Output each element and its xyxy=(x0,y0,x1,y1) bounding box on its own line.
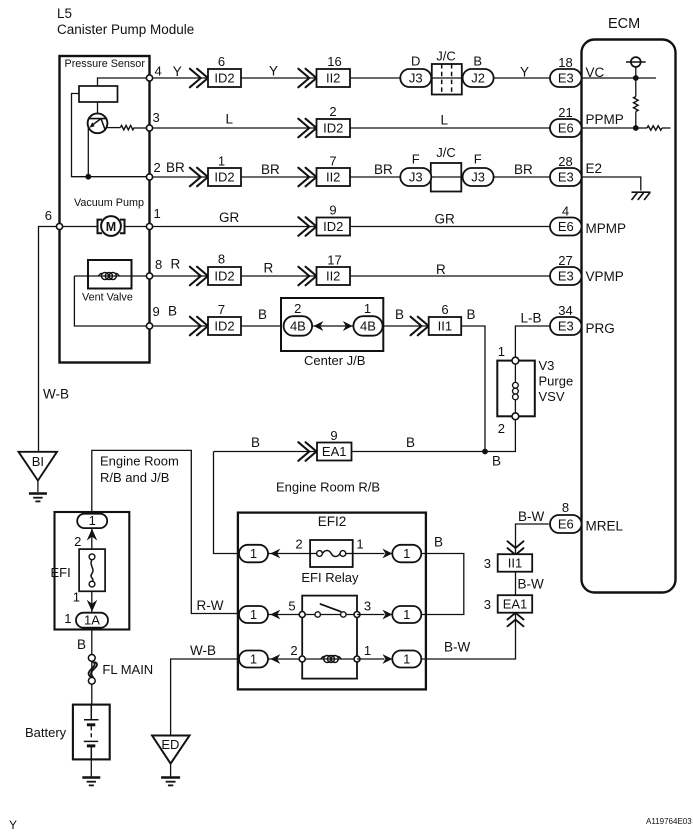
svg-text:6: 6 xyxy=(441,302,448,317)
svg-text:2: 2 xyxy=(295,537,302,552)
svg-text:F: F xyxy=(412,152,420,167)
svg-text:B: B xyxy=(251,435,260,450)
wire MREL B-W to II1 connector xyxy=(516,524,549,555)
wire II2 to J3 row1 xyxy=(350,77,400,79)
wire E3-34 to VSV pin1 L-B xyxy=(515,326,550,361)
svg-text:3: 3 xyxy=(484,597,491,612)
battery cells xyxy=(84,705,99,760)
svg-text:1: 1 xyxy=(89,513,96,528)
ground ED xyxy=(161,778,180,786)
svg-text:B: B xyxy=(467,307,476,322)
svg-text:EA1: EA1 xyxy=(322,444,347,459)
wire switch to right oval xyxy=(357,614,385,616)
vent valve coil xyxy=(99,272,120,279)
wire through relay switch xyxy=(302,614,357,616)
junction VC xyxy=(633,75,639,81)
wire EA1 to junction xyxy=(351,451,485,453)
svg-text:L5: L5 xyxy=(57,6,72,21)
svg-text:Vent Valve: Vent Valve xyxy=(82,292,133,304)
arrow up into connector 1 xyxy=(87,529,98,541)
pressure transducer circle xyxy=(88,113,108,133)
svg-text:B: B xyxy=(258,307,267,322)
svg-text:L: L xyxy=(226,112,234,127)
wire II1 to EA1 B-W xyxy=(515,571,517,596)
pin 6 terminal xyxy=(56,223,62,229)
connector II1 row6 xyxy=(429,317,462,335)
connector ID2 row3 xyxy=(208,168,241,186)
junction B node xyxy=(482,449,488,455)
svg-text:II1: II1 xyxy=(438,318,452,333)
wire VC internal xyxy=(582,77,657,79)
wire pin1 to ID2 row4 xyxy=(150,226,317,228)
wire power to VC xyxy=(635,67,637,78)
wire ID2 to II2 row1 xyxy=(241,77,317,79)
connector ID2 row5 xyxy=(208,267,241,285)
wire ID2 to 4B row6 xyxy=(241,325,284,327)
relay terminal 2 xyxy=(299,656,305,662)
ECM pin 4 E6 MPMP xyxy=(550,218,582,236)
connector arrow row5 colA xyxy=(190,267,208,286)
junction pressure sensor xyxy=(85,174,91,180)
junction PPMP xyxy=(633,125,639,131)
EFI fuse holder box xyxy=(55,512,130,630)
motor brackets xyxy=(98,220,125,234)
wire pin3 to ID2 row2 xyxy=(150,127,317,129)
svg-text:9: 9 xyxy=(153,304,160,319)
wire through J/C row3 xyxy=(428,176,465,178)
wire BI to ground xyxy=(37,481,39,492)
svg-text:II1: II1 xyxy=(508,555,522,570)
svg-text:8: 8 xyxy=(562,500,569,515)
svg-text:1: 1 xyxy=(250,607,257,622)
wire motor to pin1 xyxy=(125,226,150,228)
arrow into coil right oval xyxy=(382,654,392,664)
svg-text:II2: II2 xyxy=(326,169,340,184)
svg-text:ED: ED xyxy=(161,737,179,752)
connector II1 3 xyxy=(498,554,533,572)
VSV pin 1 terminal xyxy=(512,357,519,364)
connector arrow row3 colA xyxy=(190,168,208,187)
svg-text:E3: E3 xyxy=(558,70,574,85)
connector arrow row2 colB xyxy=(298,119,316,138)
svg-text:BI: BI xyxy=(32,454,44,469)
svg-text:VC: VC xyxy=(586,65,605,80)
wire B-W EFI2 to EA1 connector xyxy=(421,613,515,659)
fuse EFI box xyxy=(79,549,105,591)
svg-text:3: 3 xyxy=(484,556,491,571)
svg-text:1: 1 xyxy=(73,590,80,605)
svg-text:27: 27 xyxy=(558,253,572,268)
svg-text:9: 9 xyxy=(330,428,337,443)
svg-text:Pressure Sensor: Pressure Sensor xyxy=(65,58,146,70)
pin 4 terminal xyxy=(146,75,152,81)
svg-text:1: 1 xyxy=(154,206,161,221)
svg-text:Y: Y xyxy=(269,64,278,79)
svg-text:EFI2: EFI2 xyxy=(318,514,347,529)
svg-text:1A: 1A xyxy=(84,613,100,628)
svg-text:II2: II2 xyxy=(326,268,340,283)
wire II2 to E3-27 row5 xyxy=(350,275,550,277)
svg-text:1: 1 xyxy=(64,611,71,626)
VSV pin 2 terminal xyxy=(512,413,519,420)
svg-text:E6: E6 xyxy=(558,516,574,531)
svg-text:1: 1 xyxy=(498,344,505,359)
svg-text:3: 3 xyxy=(364,599,371,614)
svg-text:MPMP: MPMP xyxy=(586,221,627,236)
wire fuse lead right xyxy=(346,553,353,555)
connector J3 row3 left xyxy=(400,168,431,186)
wire J2 to E3-18 row1 xyxy=(494,77,550,79)
svg-text:4: 4 xyxy=(562,204,569,219)
wire ID2 to E6-4 row4 xyxy=(350,226,550,228)
svg-text:2: 2 xyxy=(329,104,336,119)
motor M circle xyxy=(101,216,121,236)
svg-text:F: F xyxy=(474,152,482,167)
svg-text:1: 1 xyxy=(403,651,410,666)
wire resistor 2 end xyxy=(662,127,671,129)
wire resistor to pin3 xyxy=(134,127,150,129)
svg-text:B: B xyxy=(473,54,482,69)
wire vent valve to pin9 xyxy=(74,276,149,326)
svg-text:B: B xyxy=(434,535,443,550)
arrow into switch left oval xyxy=(270,610,280,620)
svg-text:A119764E03: A119764E03 xyxy=(646,817,692,826)
relay coil xyxy=(321,656,341,663)
svg-text:Canister Pump Module: Canister Pump Module xyxy=(57,22,194,37)
arrow into fuse left oval xyxy=(270,549,280,559)
ground battery xyxy=(82,778,100,786)
ECM pin 27 E3 VPMP xyxy=(550,267,582,285)
connector II2 row3 xyxy=(317,168,351,186)
wire II2 to J3 row3 xyxy=(350,176,400,178)
svg-text:7: 7 xyxy=(329,154,336,169)
wire W-B to ED ground xyxy=(171,659,239,736)
svg-text:ID2: ID2 xyxy=(323,120,343,135)
ground triangle BI xyxy=(19,452,58,481)
connector EA1 3 xyxy=(498,595,533,613)
svg-text:1: 1 xyxy=(356,537,363,552)
svg-text:J2: J2 xyxy=(471,70,485,85)
junction block J/C row3 xyxy=(431,163,462,192)
svg-text:2: 2 xyxy=(498,421,505,436)
svg-text:B-W: B-W xyxy=(444,640,471,655)
wire transducer to resistor xyxy=(107,127,120,129)
svg-text:B: B xyxy=(395,307,404,322)
svg-text:E3: E3 xyxy=(558,169,574,184)
svg-text:8: 8 xyxy=(218,252,225,267)
svg-text:BR: BR xyxy=(514,162,533,177)
svg-text:E6: E6 xyxy=(558,219,574,234)
svg-text:18: 18 xyxy=(558,55,572,70)
svg-text:L-B: L-B xyxy=(521,311,542,326)
svg-text:ID2: ID2 xyxy=(214,169,234,184)
svg-text:BR: BR xyxy=(166,160,185,175)
svg-text:W-B: W-B xyxy=(190,643,216,658)
wire through vent valve to pin8 xyxy=(74,275,149,277)
svg-text:1: 1 xyxy=(218,154,225,169)
wire ID2 to E6-21 row2 xyxy=(350,127,550,129)
arrow into switch right oval xyxy=(382,610,392,620)
svg-text:EFI Relay: EFI Relay xyxy=(301,570,359,585)
wire ED to ground xyxy=(170,764,172,777)
relay terminal 1 xyxy=(354,656,360,662)
svg-text:GR: GR xyxy=(219,210,240,225)
svg-text:ID2: ID2 xyxy=(214,70,234,85)
svg-text:2: 2 xyxy=(294,301,301,316)
connector 1 EFI2 coil left xyxy=(239,651,268,668)
svg-text:Engine Room R/B: Engine Room R/B xyxy=(276,480,380,495)
svg-text:E2: E2 xyxy=(586,161,603,176)
transducer emitter arrowhead xyxy=(90,122,95,127)
ECM pin 8 E6 MREL xyxy=(550,515,582,533)
resistor internal horizontal xyxy=(647,126,662,130)
connector J2 row1 xyxy=(463,69,494,87)
svg-text:Y: Y xyxy=(9,818,17,832)
svg-text:B: B xyxy=(168,304,177,319)
ECM pin 34 E3 PRG xyxy=(550,317,582,335)
svg-text:Purge: Purge xyxy=(539,374,574,389)
wire through J/C row1 xyxy=(428,77,465,79)
svg-text:J/C: J/C xyxy=(436,49,456,64)
wire EFI fuse to EFI2 relay R-W xyxy=(92,450,239,613)
wire J3 to E3-28 row3 xyxy=(494,176,550,178)
wire oval to relay coil xyxy=(268,658,302,660)
svg-text:B: B xyxy=(492,454,501,469)
connector arrow row3 colB xyxy=(298,168,316,187)
svg-text:ID2: ID2 xyxy=(214,268,234,283)
EFI2 box xyxy=(238,513,426,690)
connector J3 row3 right xyxy=(463,168,494,186)
svg-text:1: 1 xyxy=(403,546,410,561)
resistor pressure sensor xyxy=(120,125,134,129)
svg-text:E3: E3 xyxy=(558,268,574,283)
svg-text:Y: Y xyxy=(520,65,529,80)
power source symbol xyxy=(626,57,646,67)
wire battery to ground xyxy=(90,759,92,777)
pin 8 terminal xyxy=(146,273,152,279)
svg-text:ID2: ID2 xyxy=(214,318,234,333)
wire pin9 to ID2 row6 xyxy=(150,325,209,327)
ECM pin 18 E3 VC xyxy=(550,69,582,87)
svg-text:Battery: Battery xyxy=(25,725,67,740)
wire pin8 to ID2 row5 xyxy=(150,275,209,277)
svg-text:34: 34 xyxy=(558,303,572,318)
connector II2 row1 xyxy=(317,69,351,87)
wire element to transducer xyxy=(97,102,99,119)
relay terminal 3 xyxy=(354,612,360,618)
connector arrow row6 colA xyxy=(190,317,208,336)
wire VC to resistor xyxy=(635,78,637,97)
connector 1 EFI2 switch right xyxy=(392,606,421,623)
connector 1 EFI2 switch left xyxy=(239,606,268,623)
svg-text:3: 3 xyxy=(153,110,160,125)
fusible link FL MAIN xyxy=(88,655,97,685)
svg-text:2: 2 xyxy=(290,643,297,658)
vent valve box xyxy=(88,260,132,289)
wire oval to relay switch xyxy=(268,614,302,616)
connector arrow row1 colB xyxy=(298,69,316,88)
arrow into 4B-1 xyxy=(343,321,353,331)
svg-text:2: 2 xyxy=(74,534,81,549)
svg-text:EA1: EA1 xyxy=(503,596,528,611)
connector II2 row5 xyxy=(317,267,351,285)
canister pump module box xyxy=(60,56,150,363)
wire 4B to II1 row6 xyxy=(383,325,429,327)
svg-text:VPMP: VPMP xyxy=(586,269,624,284)
svg-text:PPMP: PPMP xyxy=(586,112,624,127)
connector 1 EFI2 fuse left xyxy=(239,545,268,563)
svg-text:1: 1 xyxy=(364,301,371,316)
svg-text:6: 6 xyxy=(218,54,225,69)
svg-text:Center J/B: Center J/B xyxy=(304,353,365,368)
connector 4B-1 xyxy=(353,316,382,336)
wire PPMP internal xyxy=(582,127,636,129)
svg-text:B-W: B-W xyxy=(518,577,545,592)
svg-text:16: 16 xyxy=(327,54,341,69)
wire pin4 to ID2 row1 xyxy=(150,77,209,79)
svg-text:1: 1 xyxy=(364,643,371,658)
wire pin2 to ID2 row3 xyxy=(150,176,209,178)
wire resistor to PPMP xyxy=(635,112,637,129)
svg-text:Y: Y xyxy=(173,64,182,79)
connector chevron into II1 xyxy=(508,541,524,555)
wire ID2 to II2 row3 xyxy=(241,176,317,178)
connector 1 EFI2 coil right xyxy=(392,651,421,668)
connector 4B-2 xyxy=(284,316,313,336)
svg-text:8: 8 xyxy=(155,257,162,272)
fuse EFI relay box xyxy=(310,540,353,567)
pin 1 terminal xyxy=(146,223,152,229)
pin 3 terminal xyxy=(146,125,152,131)
svg-text:VSV: VSV xyxy=(539,389,565,404)
wire 1A to FL MAIN to battery xyxy=(91,629,93,705)
svg-text:V3: V3 xyxy=(539,358,555,373)
pin 2 terminal xyxy=(146,174,152,180)
svg-text:1: 1 xyxy=(250,546,257,561)
svg-text:9: 9 xyxy=(329,203,336,218)
wire through relay coil xyxy=(302,658,357,660)
svg-text:J3: J3 xyxy=(409,169,423,184)
arrow down into connector 1A xyxy=(87,600,98,612)
purge VSV coil xyxy=(513,382,519,399)
svg-text:D: D xyxy=(411,54,420,69)
wire through EFI fuse holder xyxy=(91,529,93,614)
fuse EFI relay element xyxy=(317,551,346,557)
connector arrow row1 colA xyxy=(190,69,208,88)
wire coil to right oval xyxy=(357,658,385,660)
connector arrow row5 colB xyxy=(298,267,316,286)
wire down to EFI2 fuse row xyxy=(214,452,240,554)
junction block J/C row1 xyxy=(432,64,462,95)
svg-text:28: 28 xyxy=(558,154,572,169)
svg-text:ID2: ID2 xyxy=(323,219,343,234)
ECM pin 28 E3 E2 xyxy=(550,168,582,186)
svg-text:17: 17 xyxy=(327,253,341,268)
wire transducer to junction xyxy=(87,128,89,177)
svg-text:E6: E6 xyxy=(558,120,574,135)
connector J3 row1 xyxy=(400,69,431,87)
connector arrow row6 II1 xyxy=(411,317,429,336)
svg-text:FL MAIN: FL MAIN xyxy=(102,662,153,677)
fuse EFI element xyxy=(89,554,95,587)
svg-text:R/B and J/B: R/B and J/B xyxy=(100,470,169,485)
wire pin4 to sensor element xyxy=(98,78,150,86)
svg-text:R-W: R-W xyxy=(197,598,224,613)
svg-text:R: R xyxy=(436,262,446,277)
wire junction to VSV pin2 xyxy=(485,416,515,451)
svg-text:R: R xyxy=(171,257,181,272)
svg-text:M: M xyxy=(106,220,116,234)
pressure sensor element xyxy=(79,86,118,102)
connector chevron into EA1 xyxy=(508,613,524,627)
relay body box xyxy=(302,596,357,679)
chassis ground E2 xyxy=(632,192,651,200)
connector ID2 row2 xyxy=(317,119,351,137)
svg-text:J/C: J/C xyxy=(436,145,456,160)
svg-text:B: B xyxy=(77,637,86,652)
wire fuse to right oval xyxy=(353,553,385,555)
svg-text:4B: 4B xyxy=(360,318,376,333)
svg-text:J3: J3 xyxy=(409,70,423,85)
wire ID2 to II2 row5 xyxy=(241,275,317,277)
ECM box xyxy=(582,40,676,593)
svg-text:7: 7 xyxy=(218,302,225,317)
svg-text:W-B: W-B xyxy=(43,387,69,402)
wire II1 to junction B xyxy=(461,326,485,452)
svg-text:B: B xyxy=(406,435,415,450)
resistor internal vertical xyxy=(634,97,639,112)
svg-text:PRG: PRG xyxy=(586,321,615,336)
connector 1 EFI2 fuse right xyxy=(392,545,421,563)
connector arrow row4 colB xyxy=(298,217,316,236)
svg-text:5: 5 xyxy=(288,599,295,614)
wire PPMP to resistor 2 xyxy=(636,127,647,129)
svg-text:GR: GR xyxy=(435,212,456,227)
relay terminal 5 xyxy=(299,612,305,618)
svg-text:21: 21 xyxy=(558,105,572,120)
wire VSV coil to pin2 xyxy=(514,400,516,417)
transducer chord xyxy=(89,118,106,120)
battery box xyxy=(73,705,110,760)
wire sensor to pin2 rail xyxy=(72,94,150,177)
svg-text:4B: 4B xyxy=(290,318,306,333)
svg-text:Engine Room: Engine Room xyxy=(100,454,179,469)
connector 1 EFI top xyxy=(77,513,107,528)
svg-text:2: 2 xyxy=(154,160,161,175)
purge VSV box xyxy=(497,361,535,417)
svg-text:Vacuum Pump: Vacuum Pump xyxy=(74,197,144,209)
connector 1A xyxy=(76,613,108,628)
svg-text:1: 1 xyxy=(403,607,410,622)
ground BI xyxy=(29,494,47,502)
connector ID2 row4 xyxy=(317,218,351,236)
wire pin6 W-B to BI ground xyxy=(39,227,60,452)
connector ID2 row6 xyxy=(208,317,241,335)
svg-text:6: 6 xyxy=(45,208,52,223)
wire oval to fuse EFI2 xyxy=(268,553,310,555)
relay switch contacts xyxy=(315,604,346,617)
arrow into fuse right oval xyxy=(382,549,392,559)
connector arrow EA1 xyxy=(298,442,316,461)
wire E2 internal xyxy=(582,177,641,191)
wire pin6 to motor xyxy=(60,226,98,228)
arrow into coil left oval xyxy=(270,654,280,664)
wire between 4B ovals xyxy=(312,325,354,327)
wire B loop EFI relay xyxy=(421,554,464,615)
pin 9 terminal xyxy=(146,323,152,329)
svg-text:B-W: B-W xyxy=(518,509,545,524)
connector EA1 xyxy=(317,443,352,461)
